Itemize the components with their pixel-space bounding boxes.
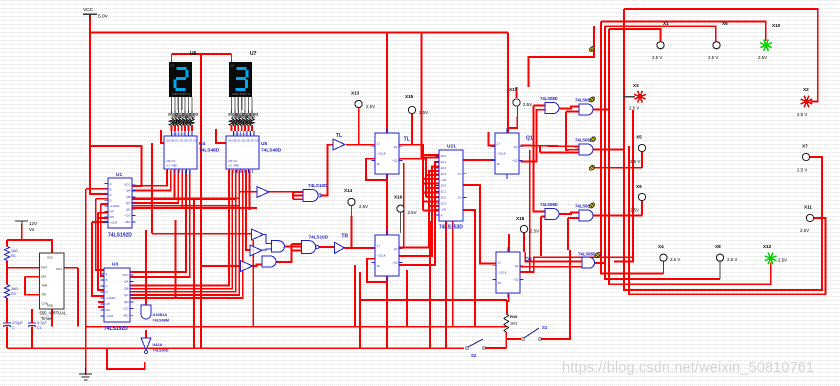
svg-text:74LS00D: 74LS00D: [153, 349, 169, 353]
svg-text:ABCDEFG: ABCDEFG: [232, 92, 251, 96]
svg-text:74LS192D: 74LS192D: [108, 233, 132, 239]
svg-text:~LT ~RBI: ~LT ~RBI: [166, 164, 177, 168]
svg-text:OA OB OC OD OE OF OG: OA OB OC OD OE OF OG: [228, 139, 259, 143]
svg-text:X9: X9: [636, 184, 642, 189]
svg-text:X11: X11: [804, 205, 812, 210]
svg-text:2.5V: 2.5V: [359, 204, 368, 209]
svg-text:~1CLK: ~1CLK: [498, 271, 507, 275]
svg-text:74LS10D: 74LS10D: [308, 183, 328, 188]
svg-text:1Q: 1Q: [514, 264, 519, 268]
svg-text:B: B: [110, 187, 112, 191]
svg-text:74LS08D: 74LS08D: [578, 252, 596, 257]
svg-text:U42A: U42A: [153, 343, 163, 347]
svg-text:74LS153D: 74LS153D: [439, 225, 463, 231]
svg-text:~CO: ~CO: [124, 214, 131, 218]
svg-text:~1Q: ~1Q: [392, 159, 398, 163]
svg-text:X8: X8: [715, 244, 721, 249]
svg-text:1J: 1J: [497, 141, 501, 145]
svg-text:DIS: DIS: [42, 275, 47, 279]
svg-text:B: B: [106, 278, 108, 282]
svg-text:Vs: Vs: [29, 227, 35, 232]
svg-text:1K: 1K: [498, 281, 502, 285]
svg-text:1C1: 1C1: [441, 160, 447, 164]
svg-text:X2: X2: [803, 87, 809, 92]
svg-text:1K: 1K: [377, 264, 381, 268]
svg-text:1kΩ: 1kΩ: [510, 321, 517, 326]
svg-text:TRI: TRI: [42, 293, 47, 297]
svg-text:X17: X17: [509, 87, 518, 92]
svg-text:VCC: VCC: [47, 256, 53, 260]
svg-text:2.5V: 2.5V: [800, 228, 809, 233]
svg-text:74LS48D: 74LS48D: [261, 148, 282, 154]
svg-text:OA OB OC OD OE OF OG: OA OB OC OD OE OF OG: [166, 139, 197, 143]
svg-text:UP: UP: [106, 302, 110, 306]
svg-text:2.5 V: 2.5 V: [708, 55, 718, 60]
svg-text:~LOAD: ~LOAD: [110, 204, 121, 208]
svg-text:1C2: 1C2: [441, 166, 447, 170]
svg-text:200Ω: 200Ω: [188, 112, 199, 117]
svg-text:RST: RST: [42, 266, 48, 270]
svg-text:2.5V: 2.5V: [366, 104, 375, 109]
svg-text:1C0: 1C0: [441, 154, 447, 158]
svg-text:C: C: [12, 326, 15, 330]
svg-text:X13: X13: [351, 91, 360, 96]
svg-text:UP: UP: [110, 210, 114, 214]
svg-text:2.5 V: 2.5 V: [670, 257, 680, 262]
svg-text:X10: X10: [772, 23, 781, 28]
svg-text:CA: CA: [171, 64, 175, 68]
svg-text:~1Q: ~1Q: [512, 159, 518, 163]
svg-text:A B C D: A B C D: [166, 159, 175, 163]
svg-text:1K: 1K: [497, 162, 501, 166]
svg-text:74LS08D: 74LS08D: [540, 202, 558, 207]
svg-text:2.5 V: 2.5 V: [652, 55, 662, 60]
svg-text:1J: 1J: [498, 260, 502, 264]
svg-text:~1Q: ~1Q: [513, 278, 519, 282]
svg-text:1Q: 1Q: [513, 145, 518, 149]
svg-text:R1: R1: [11, 254, 16, 258]
svg-text:X4: X4: [658, 244, 664, 249]
svg-text:74LS192D: 74LS192D: [104, 326, 128, 332]
svg-text:A B C D: A B C D: [228, 159, 237, 163]
svg-text:~LOAD: ~LOAD: [106, 296, 117, 300]
svg-text:~1Q: ~1Q: [392, 261, 398, 265]
svg-text:~1CLK: ~1CLK: [377, 254, 386, 258]
svg-text:1J: 1J: [377, 243, 381, 247]
svg-text:THR: THR: [42, 284, 48, 288]
svg-text:2.5V: 2.5V: [408, 210, 417, 215]
svg-text:GND: GND: [47, 304, 53, 308]
svg-text:TL: TL: [336, 133, 342, 139]
svg-text:A: A: [106, 272, 108, 276]
svg-text:74LS48D: 74LS48D: [199, 148, 220, 154]
svg-text:~BO: ~BO: [122, 313, 129, 317]
svg-text:VCC: VCC: [83, 7, 94, 13]
svg-text:X1: X1: [663, 21, 669, 26]
svg-text:2C2: 2C2: [441, 196, 447, 200]
svg-text:U7: U7: [250, 51, 257, 57]
svg-text:U21: U21: [447, 144, 456, 150]
svg-text:2Y: 2Y: [458, 196, 462, 200]
svg-text:2.5V: 2.5V: [630, 208, 639, 213]
svg-text:74LS08M: 74LS08M: [153, 319, 169, 323]
svg-text:QA: QA: [124, 280, 128, 284]
svg-text:2.5V: 2.5V: [523, 102, 532, 107]
svg-text:TR: TR: [341, 234, 348, 240]
svg-text:2C0: 2C0: [441, 184, 447, 188]
svg-text:X7: X7: [802, 144, 808, 149]
svg-text:~CLR: ~CLR: [110, 221, 119, 225]
svg-text:U10B1A: U10B1A: [153, 313, 168, 317]
svg-text:DN: DN: [106, 308, 110, 312]
svg-text:2.5 V: 2.5 V: [629, 106, 639, 111]
svg-text:OUT: OUT: [56, 267, 62, 271]
svg-text:2.5 V: 2.5 V: [727, 257, 737, 262]
svg-text:2.5 V: 2.5 V: [797, 168, 807, 173]
svg-text:X5: X5: [636, 135, 642, 140]
svg-text:X6: X6: [722, 21, 728, 26]
svg-text:2.5 V: 2.5 V: [797, 112, 807, 117]
svg-text:VCC: VCC: [122, 273, 129, 277]
svg-text:https://blog.csdn.net/weixin_5: https://blog.csdn.net/weixin_50810761: [562, 360, 814, 376]
svg-text:X12: X12: [763, 244, 772, 249]
svg-text:1J: 1J: [377, 141, 381, 145]
svg-text:1C3: 1C3: [441, 172, 447, 176]
svg-text:U1: U1: [116, 172, 122, 178]
svg-text:X18: X18: [516, 216, 525, 221]
svg-text:S2: S2: [471, 353, 477, 358]
svg-text:1K: 1K: [377, 162, 381, 166]
svg-text:555_VIRTUAL: 555_VIRTUAL: [40, 311, 68, 316]
svg-text:A: A: [441, 213, 443, 217]
svg-text:~2G: ~2G: [441, 207, 447, 211]
svg-text:QB: QB: [124, 286, 128, 290]
svg-text:5.0V: 5.0V: [98, 14, 109, 20]
svg-text:2.5 V: 2.5 V: [630, 159, 640, 164]
svg-text:U5: U5: [261, 141, 267, 147]
svg-text:470µF: 470µF: [12, 321, 24, 325]
svg-text:U6: U6: [190, 51, 197, 57]
svg-text:200Ω: 200Ω: [248, 112, 259, 117]
svg-text:1kΩ: 1kΩ: [11, 287, 18, 291]
svg-text:C1: C1: [37, 326, 42, 330]
svg-text:~BO: ~BO: [124, 220, 131, 224]
svg-text:1kΩ: 1kΩ: [11, 249, 18, 253]
svg-text:TL: TL: [404, 137, 410, 143]
svg-text:1Q: 1Q: [393, 145, 398, 149]
svg-text:X3: X3: [633, 83, 639, 88]
svg-text:QA: QA: [126, 189, 130, 193]
svg-text:QB: QB: [126, 195, 130, 199]
svg-text:~CLR: ~CLR: [106, 314, 115, 318]
svg-text:U4: U4: [199, 141, 205, 147]
svg-text:ABCDEFG: ABCDEFG: [172, 92, 191, 96]
svg-text:2.5V: 2.5V: [530, 229, 539, 234]
svg-text:Q0: Q0: [525, 257, 532, 263]
svg-text:12V: 12V: [29, 221, 37, 226]
svg-text:~1CLK: ~1CLK: [497, 152, 506, 156]
svg-text:~1G: ~1G: [441, 178, 447, 182]
svg-text:1Y: 1Y: [458, 172, 462, 176]
svg-text:X15: X15: [405, 94, 414, 99]
svg-text:~CO: ~CO: [122, 307, 129, 311]
svg-text:A: A: [110, 182, 112, 186]
svg-text:VCC: VCC: [124, 182, 131, 186]
svg-text:DN: DN: [110, 215, 114, 219]
svg-text:U3: U3: [112, 262, 118, 268]
svg-text:74LS10D: 74LS10D: [309, 235, 329, 240]
svg-text:74LS08D: 74LS08D: [540, 96, 558, 101]
svg-text:Q1: Q1: [526, 136, 533, 142]
svg-text:4.7µF: 4.7µF: [37, 321, 47, 325]
svg-text:1Q: 1Q: [393, 247, 398, 251]
svg-text:~LT ~RBI: ~LT ~RBI: [228, 164, 239, 168]
svg-text:R10: R10: [510, 314, 518, 319]
svg-text:2C1: 2C1: [441, 190, 447, 194]
svg-text:R2: R2: [11, 292, 16, 296]
svg-text:2.5V: 2.5V: [419, 110, 428, 115]
svg-text:~1CLK: ~1CLK: [377, 152, 386, 156]
svg-text:CA: CA: [231, 64, 235, 68]
svg-text:2C3: 2C3: [441, 201, 447, 205]
svg-text:2.5V: 2.5V: [778, 258, 787, 263]
svg-text:2.5V: 2.5V: [758, 55, 767, 60]
svg-text:X14: X14: [344, 188, 353, 193]
svg-text:S1: S1: [542, 325, 548, 330]
svg-text:X16: X16: [394, 195, 403, 200]
